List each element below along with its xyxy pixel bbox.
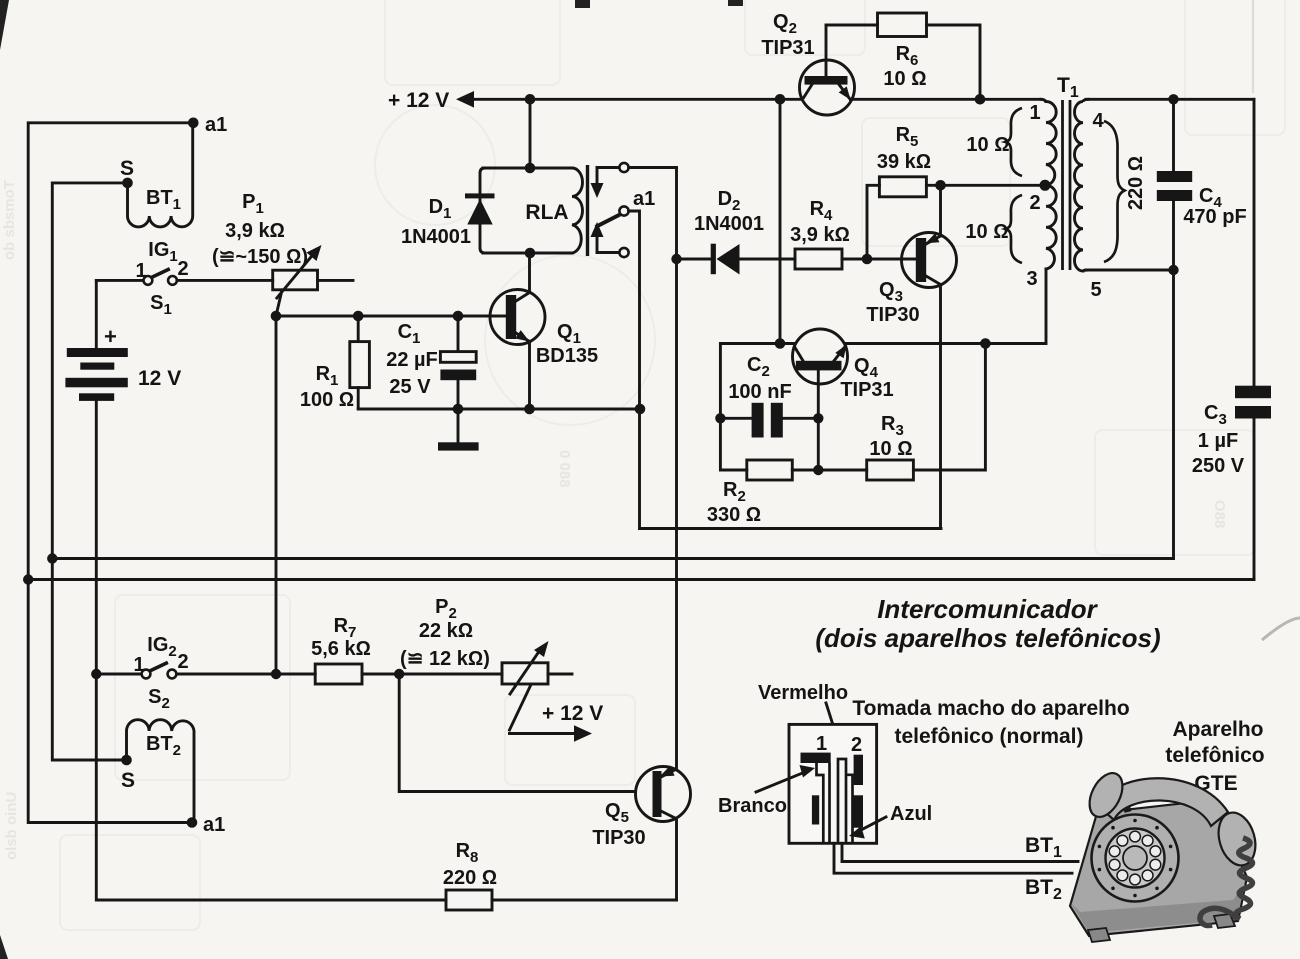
- wire T1 pin3 down to Q4 emitter rail: [1045, 269, 1048, 344]
- wire emitter/ground rail under Q1: [358, 408, 639, 411]
- capacitor C3 1uF 250V: [1192, 386, 1271, 580]
- node P1 wiper junction: [271, 311, 282, 322]
- svg-text:Vermelho: Vermelho: [758, 682, 848, 704]
- plug contact blue (lower-right bar): [853, 795, 863, 827]
- transistor Q5 TIP30: [592, 766, 690, 850]
- brace secondary winding: [1104, 121, 1125, 262]
- svg-text:100 Ω: 100 Ω: [300, 389, 354, 411]
- svg-text:TIP31: TIP31: [761, 37, 814, 59]
- plug body (tomada): [789, 724, 877, 843]
- label Azul with arrow: [849, 803, 932, 839]
- node R6 to emitter rail: [975, 94, 986, 105]
- node T1 pin2 tap: [1040, 180, 1051, 191]
- node Q4 collector / Q2 branch: [775, 338, 786, 349]
- node rail1 / S bus: [47, 553, 57, 563]
- svg-text:Intercomunicador: Intercomunicador: [877, 594, 1098, 624]
- node C2 left: [715, 413, 725, 423]
- svg-text:RLA: RLA: [525, 201, 568, 224]
- svg-text:25 V: 25 V: [389, 376, 431, 398]
- svg-text:+ 12 V: + 12 V: [542, 702, 603, 725]
- svg-text:3: 3: [1026, 268, 1037, 290]
- capacitor C2 100nF: [720, 354, 818, 438]
- power +12V arrow (P2 wiper): [510, 702, 604, 742]
- svg-text:2: 2: [1029, 192, 1040, 214]
- svg-text:TIP30: TIP30: [592, 827, 645, 849]
- svg-text:O88: O88: [1211, 500, 1228, 528]
- node relay coil top: [525, 163, 536, 174]
- svg-text:4: 4: [1092, 110, 1104, 132]
- plug pin 1 channel: [817, 763, 830, 843]
- svg-text:5,6 kΩ: 5,6 kΩ: [311, 638, 371, 660]
- wire S2 to R7: [176, 673, 315, 676]
- resistor R3 10 Ohm: [818, 344, 985, 481]
- title Intercomunicador: [815, 594, 1160, 653]
- node relay coil bottom: [525, 248, 536, 259]
- svg-text:2: 2: [177, 258, 188, 280]
- svg-text:(≌ 12 kΩ): (≌ 12 kΩ): [400, 648, 490, 670]
- svg-text:1N4001: 1N4001: [694, 213, 764, 235]
- transistor Q3 TIP30: [866, 185, 956, 528]
- node R2 / R3 / Q4 base junction: [813, 465, 823, 475]
- potentiometer P1 3,9 kOhm: [212, 191, 353, 315]
- node +12V / relay branch: [525, 94, 536, 105]
- resistor R7 5,6 kOhm: [311, 615, 502, 684]
- wire contact circuit bottom (to Q3 collector): [640, 527, 942, 530]
- svg-text:Aparelho: Aparelho: [1172, 718, 1263, 741]
- resistor R1 100 Ohm: [300, 316, 370, 411]
- node C4 top: [1168, 94, 1178, 104]
- svg-text:330 Ω: 330 Ω: [707, 504, 761, 526]
- svg-text:telefônico (normal): telefônico (normal): [894, 725, 1083, 748]
- svg-text:39 kΩ: 39 kΩ: [877, 151, 931, 173]
- wire S1 to P1: [177, 279, 273, 282]
- power +12V arrow (top): [388, 89, 474, 112]
- svg-text:3,9 kΩ: 3,9 kΩ: [790, 224, 850, 246]
- diode D2 1N4001: [677, 188, 796, 275]
- svg-text:250 V: 250 V: [1192, 455, 1245, 477]
- label Tomada macho do aparelho telefonico (normal): [852, 697, 1129, 748]
- node battery minus / IG2 feed: [91, 669, 101, 679]
- node C1 bottom / ground junction: [453, 404, 464, 415]
- node D2 anode junction: [671, 254, 681, 264]
- svg-text:TIP31: TIP31: [840, 379, 893, 401]
- wire BT1 (plug to phone): [842, 843, 1078, 861]
- T1 core: [1063, 100, 1071, 270]
- svg-text:telefônico: telefônico: [1165, 744, 1264, 767]
- svg-text:1: 1: [816, 733, 827, 755]
- transistor Q2 TIP31: [761, 11, 854, 115]
- svg-text:(≌~150 Ω): (≌~150 Ω): [212, 246, 308, 268]
- resistor R6 10 Ohm: [826, 13, 980, 99]
- svg-text:10 Ω: 10 Ω: [883, 68, 926, 90]
- svg-text:(dois aparelhos telefônicos): (dois aparelhos telefônicos): [815, 623, 1160, 653]
- node R5 / Q3 emitter: [935, 180, 946, 191]
- coil BT2: [127, 720, 195, 823]
- svg-text:ob sbsmoT: ob sbsmoT: [1, 180, 18, 260]
- svg-text:22 kΩ: 22 kΩ: [419, 620, 473, 642]
- wire line rail 1 (S bus to C4 column): [52, 557, 1173, 560]
- svg-text:100 nF: 100 nF: [728, 381, 791, 403]
- svg-text:Branco: Branco: [718, 795, 787, 817]
- svg-text:+ 12 V: + 12 V: [388, 89, 449, 112]
- resistor R4 3,9 kOhm: [790, 198, 916, 269]
- wire C2 left down to R2: [720, 418, 746, 470]
- node +12V / Q2-Q4 branch: [775, 94, 786, 105]
- wire relay feed: [529, 99, 532, 168]
- wire relay top contact to right column: [629, 166, 677, 169]
- label Branco with arrow: [718, 765, 815, 817]
- wire Q1 base rail: [276, 315, 506, 318]
- node S (BT2): [121, 755, 135, 792]
- svg-text:a1: a1: [203, 814, 225, 836]
- svg-text:2: 2: [851, 734, 862, 756]
- plug pin 2 channel: [838, 759, 853, 843]
- node a1 (BT1 upper terminal): [188, 114, 227, 136]
- svg-text:1: 1: [1029, 102, 1040, 124]
- resistor R5 39 kOhm: [867, 124, 1045, 259]
- svg-text:Azul: Azul: [890, 803, 932, 825]
- svg-text:olsb oinU: olsb oinU: [3, 792, 20, 860]
- plug pin 2 blade: [854, 755, 863, 785]
- svg-text:3,9 kΩ: 3,9 kΩ: [225, 220, 285, 242]
- wire S bus: BT1 S down to BT2 S: [52, 183, 127, 760]
- resistor R8 220 Ohm: [96, 674, 676, 910]
- wire +12V rail to Q2: [472, 98, 801, 101]
- T1 primary winding 1-2: [1041, 99, 1056, 185]
- wire T1 pin4 to right column: [1086, 98, 1254, 101]
- wire Q4 emitter rail (right) to T1 pin3 line: [847, 342, 1046, 345]
- T1 primary winding 2-3: [1046, 185, 1056, 269]
- node R1 top: [353, 311, 364, 322]
- wire Q4 base down to R2/R3: [817, 418, 820, 470]
- svg-text:2: 2: [177, 651, 188, 673]
- potentiometer P2 22 kOhm: [400, 596, 572, 730]
- wire a1 contact down to ground rail: [629, 211, 640, 529]
- svg-text:10 Ω: 10 Ω: [966, 134, 1009, 156]
- svg-text:0 088: 0 088: [556, 450, 573, 488]
- svg-text:5: 5: [1090, 279, 1101, 301]
- transistor Q4 TIP31: [793, 329, 894, 418]
- brace winding 2-3: [1006, 195, 1023, 263]
- scan mark top edge 2: [728, 0, 743, 6]
- svg-text:Tomada macho do aparelho: Tomada macho do aparelho: [852, 697, 1129, 720]
- switch S1 / IG1: [96, 239, 188, 318]
- svg-text:10 Ω: 10 Ω: [869, 438, 912, 460]
- T1 secondary winding 4-5: [1075, 99, 1089, 271]
- node ground rail to a1 contact line: [635, 404, 646, 415]
- wire T1 pin5 to C4: [1086, 269, 1174, 272]
- capacitor C1 22uF 25V (electrolytic): [386, 316, 476, 409]
- scan mark top edge: [575, 0, 590, 8]
- svg-text:1 µF: 1 µF: [1198, 430, 1238, 452]
- node C4 bottom / T1 pin5: [1168, 265, 1178, 275]
- node IG2 line / P1 wiper column: [271, 669, 281, 679]
- wire Q5 collector down to R8 rail: [675, 821, 678, 901]
- battery 12 V: [65, 280, 181, 674]
- svg-text:TIP30: TIP30: [866, 304, 919, 326]
- node a1 (BT2): [187, 814, 226, 836]
- svg-text:1: 1: [133, 654, 144, 676]
- wire right column (contact to Q5 emitter): [675, 168, 678, 767]
- wire Q2 emitter to T1 pin 1: [851, 98, 1042, 101]
- svg-text:10 Ω: 10 Ω: [965, 221, 1008, 243]
- coil BT1: [128, 123, 193, 227]
- capacitor C4 470pF: [1157, 99, 1247, 270]
- wire Q4 collector rail (left): [720, 344, 793, 419]
- plug contact white (lower-left bar): [812, 795, 819, 824]
- svg-text:1: 1: [135, 260, 146, 282]
- scan artifact curve right edge: [1262, 618, 1300, 640]
- wire C4 node down to line rail 1: [1172, 270, 1175, 559]
- ground symbol: [438, 409, 479, 451]
- node Q4 emitter rail / R3 branch: [980, 338, 991, 349]
- transistor Q1 BD135: [490, 253, 598, 409]
- svg-text:220 Ω: 220 Ω: [443, 867, 497, 889]
- wire Q2 branch down to Q4: [779, 99, 782, 343]
- node S (BT1 lower terminal): [120, 157, 134, 188]
- svg-text:1N4001: 1N4001: [401, 226, 471, 248]
- transformer T1: [1057, 74, 1079, 101]
- wire Q5 base branch: [399, 674, 635, 792]
- relay coil RLA: [483, 168, 583, 253]
- switch S2 / IG2: [96, 634, 188, 712]
- node R4 / R5 junction: [862, 254, 873, 265]
- svg-text:+: +: [104, 324, 117, 349]
- svg-text:12 V: 12 V: [138, 367, 181, 390]
- diode D1 1N4001: [401, 168, 495, 253]
- node C1 top: [453, 311, 464, 322]
- wire line rail 2 (a1 bus to C3 column): [28, 578, 1254, 581]
- drawing: GTE rotary telephone: [1070, 768, 1261, 942]
- resistor R2 330 Ohm: [707, 460, 818, 526]
- relay core bar: [586, 165, 589, 256]
- svg-text:a1: a1: [205, 114, 227, 136]
- scan artifact vertical crease top right: [1252, 0, 1254, 93]
- node C2 right / Q4 base: [813, 413, 823, 423]
- scan mark top-left corner: [0, 0, 9, 50]
- node Q1 emitter junction: [524, 404, 535, 415]
- plug pin 1 blade: [801, 753, 831, 763]
- svg-text:470 pF: 470 pF: [1183, 206, 1246, 228]
- node rail2 / a1 bus: [23, 574, 33, 584]
- wire right edge column (pin4 to C3): [1253, 99, 1256, 385]
- relay contact top (NC): [591, 163, 629, 198]
- label Vermelho with arrow: [758, 682, 848, 755]
- wire BT2 (plug to phone): [834, 843, 1072, 873]
- scan mark bottom-left corner: [0, 935, 8, 959]
- svg-text:S: S: [121, 769, 135, 792]
- svg-text:22 µF: 22 µF: [386, 349, 438, 371]
- svg-text:a1: a1: [633, 188, 655, 210]
- svg-text:S: S: [120, 157, 134, 180]
- wire a1 bus: BT1 a1 down left edge to BT2 a1: [28, 123, 193, 823]
- relay contact arm a1: [596, 188, 656, 227]
- wire P1 wiper to IG2 line: [275, 316, 278, 674]
- brace winding 1-2: [1006, 108, 1023, 176]
- svg-text:220 Ω: 220 Ω: [1125, 156, 1147, 210]
- label Aparelho telefonico GTE: [1165, 718, 1264, 795]
- svg-text:BD135: BD135: [536, 345, 598, 367]
- node R7 / Q5 base branch: [394, 669, 404, 679]
- relay contact bottom (NO): [591, 222, 629, 257]
